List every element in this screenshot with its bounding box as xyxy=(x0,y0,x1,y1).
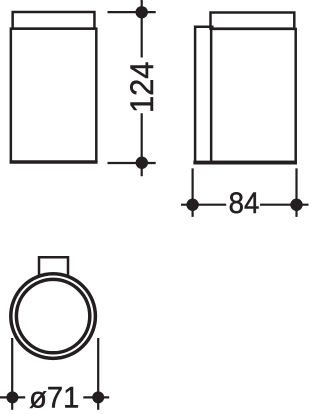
svg-text:ø71: ø71 xyxy=(29,381,79,414)
svg-text:124: 124 xyxy=(123,62,160,114)
svg-text:84: 84 xyxy=(229,187,260,220)
